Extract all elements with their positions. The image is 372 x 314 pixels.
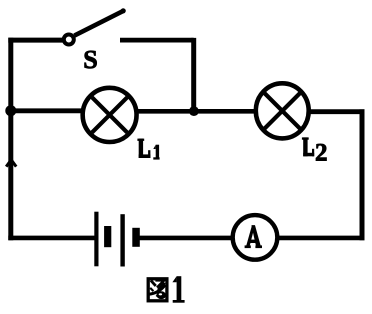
battery plate 2 (short thick, -) (104, 226, 111, 247)
junction dot (node A, left rail) (5, 105, 16, 116)
lamp L2 (circle with X) (256, 83, 309, 138)
svg-text:2: 2 (315, 139, 328, 166)
label 图 (figure) glyph drawing (148, 279, 167, 301)
battery plate 1 (long, +) (94, 212, 98, 267)
lamp L1 (circle with X) (83, 88, 137, 142)
ammeter U1 circle (233, 215, 278, 260)
label L2 : letter L (302, 137, 314, 156)
wire: top horizontal after switch gap (120, 38, 194, 43)
svg-text:S: S (83, 45, 97, 74)
wire: battery to ammeter (137, 236, 232, 241)
wire: ammeter to right corner (279, 236, 365, 241)
label 1 of 图1 (172, 276, 184, 303)
wire: left rail to lamp L1 (8, 108, 84, 113)
battery plate 4 (short thick, -) (132, 228, 140, 247)
wire: left vertical rail (8, 38, 13, 240)
battery plate 3 (long, +) (120, 214, 124, 266)
wire: bottom-left horizontal to battery (8, 236, 94, 241)
wire: top-left horizontal to switch (8, 38, 63, 43)
switch S pivot circle (64, 35, 74, 45)
current arrow on left rail (6, 160, 16, 167)
junction dot (node B, middle) (189, 106, 199, 116)
label L1 : letter L (137, 139, 150, 158)
ammeter letter A (245, 225, 262, 248)
label L1 : subscript 1 (153, 145, 159, 160)
wire: lamp L2 to right corner (309, 109, 365, 114)
wire: right vertical rail (360, 109, 365, 240)
switch S blade (74, 11, 123, 36)
wire: lamp L1 to lamp L2 (137, 109, 256, 114)
wire: upper-right vertical down to junction (191, 38, 196, 111)
switch blade tip serif (121, 8, 126, 13)
